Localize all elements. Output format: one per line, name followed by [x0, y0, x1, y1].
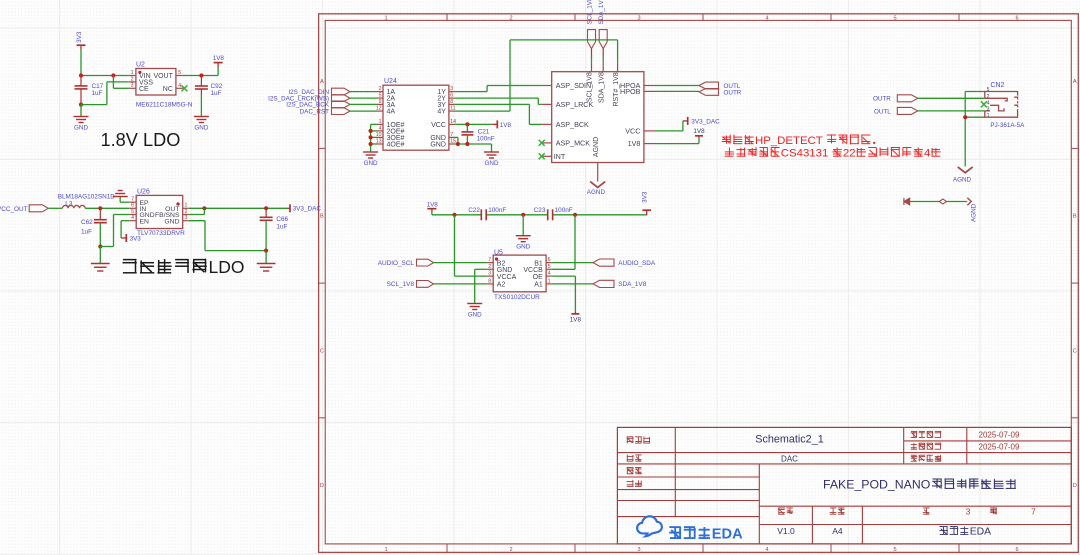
svg-text:U24: U24	[384, 78, 397, 85]
svg-text:ASP_BCK: ASP_BCK	[556, 120, 589, 129]
svg-text:TLV70733DRVR: TLV70733DRVR	[137, 230, 185, 237]
svg-text:4: 4	[987, 100, 990, 106]
title block labels (chinese)	[627, 431, 997, 515]
svg-text:5: 5	[893, 15, 896, 21]
svg-text:1: 1	[384, 15, 387, 21]
net-tie GND to AGND	[904, 198, 978, 222]
power flag 3V3_DAC at OUT	[287, 204, 321, 212]
svg-text:3: 3	[131, 83, 134, 89]
wire VCC_OUT to L3	[48, 207, 62, 209]
svg-text:1V8: 1V8	[693, 128, 705, 135]
svg-text:2: 2	[987, 94, 990, 100]
svg-text:A: A	[320, 79, 324, 85]
svg-text:5: 5	[893, 547, 896, 553]
wire CE to VIN net	[113, 76, 128, 89]
wire 1Y to ASP_SDIN	[454, 86, 541, 92]
capacitor C23 100nF	[534, 207, 573, 220]
svg-text:4: 4	[765, 15, 768, 21]
power flag 3V3 at EN pin	[121, 221, 141, 243]
ground under C21	[484, 152, 499, 167]
svg-text:VCC_OUT: VCC_OUT	[0, 206, 28, 213]
node junction VIN rail	[79, 73, 116, 77]
wire DAC_RST to U24	[350, 110, 377, 112]
capacitor C21	[461, 124, 494, 144]
svg-text:EDA: EDA	[712, 526, 743, 542]
svg-text:1: 1	[987, 113, 990, 119]
svg-text:SCL_1V8: SCL_1V8	[387, 281, 415, 288]
no-connect X on ASP_MCK	[539, 140, 545, 146]
svg-text:D: D	[1073, 483, 1077, 489]
no-connect X on CN2 pin4	[981, 101, 987, 107]
svg-text:SDA_1V8: SDA_1V8	[618, 281, 647, 288]
svg-text:LDO: LDO	[209, 257, 245, 277]
svg-text:GND: GND	[364, 160, 378, 167]
svg-text:OE: OE	[533, 274, 543, 281]
no-connect X on U2 NC pin	[181, 85, 187, 91]
svg-text:PJ-361A-5A: PJ-361A-5A	[990, 122, 1025, 129]
net flag SDA_1V8 (top)	[598, 0, 607, 61]
net flag VCC_OUT	[0, 205, 48, 213]
svg-text:C: C	[1073, 348, 1077, 354]
svg-text:EDA: EDA	[970, 527, 991, 538]
svg-text:3: 3	[488, 271, 491, 277]
svg-text:SDA_1V8: SDA_1V8	[599, 72, 606, 103]
node junction CN2 pin1	[963, 115, 967, 119]
wire 1V8/3V3 decoupling rail	[432, 214, 647, 216]
svg-text:1: 1	[548, 278, 551, 284]
svg-text:A2: A2	[497, 282, 506, 289]
title block values	[755, 431, 1036, 536]
ground under C66	[257, 251, 276, 271]
wire U26 right GND to C66 bottom	[189, 221, 266, 251]
svg-text:2025-07-09: 2025-07-09	[979, 443, 1020, 452]
inductor L3 BLM18AG102SN1D	[58, 194, 116, 209]
svg-text:CS43131: CS43131	[781, 147, 829, 159]
svg-text:HP_DETECT: HP_DETECT	[755, 135, 823, 147]
ground above EP pin	[113, 191, 130, 203]
node junctions rail	[452, 213, 577, 217]
power flag 1V8 (U5 rail)	[427, 202, 439, 215]
wire 4Y to RST#_1V8	[454, 40, 617, 111]
svg-text:1uF: 1uF	[92, 90, 103, 97]
svg-text:RST#_1V8: RST#_1V8	[613, 72, 620, 106]
svg-text:OUTR: OUTR	[724, 90, 742, 97]
no-connect X on INT	[539, 153, 545, 159]
svg-text:12: 12	[376, 106, 382, 112]
svg-text:SCL_1V8: SCL_1V8	[587, 72, 594, 102]
svg-text:HPOB: HPOB	[620, 87, 641, 96]
svg-text:AGND: AGND	[593, 137, 600, 157]
node junctions on OUT rail	[202, 206, 268, 210]
svg-text:3: 3	[987, 107, 990, 113]
svg-text:2: 2	[131, 76, 134, 82]
svg-text:VCC: VCC	[431, 122, 446, 129]
svg-text:C21: C21	[478, 128, 490, 135]
svg-text:100nF: 100nF	[555, 207, 573, 214]
wire U24 GND pins to ground	[454, 137, 491, 152]
wire AGND bus at jack	[965, 92, 985, 167]
svg-text:AUDIO_SCL: AUDIO_SCL	[378, 260, 415, 267]
svg-text:5: 5	[987, 87, 990, 93]
svg-text:6: 6	[548, 257, 551, 263]
node junction at C62	[98, 206, 102, 210]
wire OUTR to CN2 pin2	[918, 97, 985, 99]
svg-text:3: 3	[637, 15, 640, 21]
svg-text:1V8: 1V8	[500, 122, 512, 129]
svg-text:7: 7	[1031, 506, 1036, 516]
regulator U2 ME6211C18M5G-N	[129, 62, 193, 109]
svg-text:2: 2	[509, 15, 512, 21]
svg-text:1uF: 1uF	[211, 90, 222, 97]
svg-text:B: B	[320, 214, 324, 220]
svg-text:7: 7	[450, 132, 453, 138]
svg-text:C: C	[320, 348, 324, 354]
node junction C66 bottom	[264, 249, 268, 253]
svg-text:AUDIO_SDA: AUDIO_SDA	[618, 260, 656, 267]
net flag I2S_DAC_LRCK(WS)	[268, 95, 350, 103]
svg-text:C92: C92	[211, 83, 223, 90]
svg-text:4OE#: 4OE#	[387, 141, 405, 148]
svg-text:3V3: 3V3	[130, 235, 142, 242]
analog ground AGND under CS43131	[587, 182, 606, 196]
svg-text:AGND: AGND	[970, 203, 977, 222]
node junction C62 bottom	[98, 244, 102, 248]
wire 3V3 to VIN rail	[81, 50, 129, 76]
net flag I2S_DAC_BCK	[286, 101, 350, 109]
level shifter U5 TXS0102DCUR	[487, 250, 552, 301]
svg-text:C17: C17	[92, 83, 104, 90]
svg-text:7: 7	[488, 257, 491, 263]
capacitor C92	[195, 76, 223, 97]
svg-text:3V3_DAC: 3V3_DAC	[691, 118, 720, 125]
net flag AUDIO_SDA	[593, 259, 656, 267]
node junction VCC-C21	[465, 122, 469, 126]
svg-text:DAC: DAC	[781, 455, 798, 464]
power flag 1V8 at CS43131	[656, 128, 705, 143]
net flag OUTL (to jack)	[874, 107, 918, 115]
svg-text:5: 5	[548, 264, 551, 270]
wire VCCA to 1V8 rail	[455, 215, 487, 276]
node junctions GND chain	[456, 142, 470, 146]
svg-text:4: 4	[131, 215, 134, 221]
svg-text:7: 7	[131, 197, 134, 203]
wire A1 to SDA_1V8	[552, 283, 593, 285]
svg-text:AGND: AGND	[587, 189, 606, 196]
svg-text:4: 4	[178, 83, 181, 89]
svg-text:2: 2	[509, 547, 512, 553]
svg-text:U26: U26	[137, 188, 150, 195]
net flag OUTL	[699, 82, 741, 90]
net flag I2S_DAC_DIN	[288, 88, 350, 96]
svg-text:4: 4	[548, 271, 551, 277]
svg-text:DAC_RST: DAC_RST	[300, 108, 330, 115]
wire I2S_DAC_LRCK(WS) to U24	[350, 97, 377, 99]
wire L3 to IN	[85, 207, 129, 209]
net flag OUTR (to jack)	[873, 95, 918, 103]
svg-text:GND: GND	[516, 244, 530, 251]
capacitor C17	[75, 76, 104, 105]
svg-text:CN2: CN2	[990, 82, 1004, 89]
svg-text:100nF: 100nF	[488, 207, 506, 214]
svg-text:C62: C62	[81, 219, 93, 226]
svg-text:GND: GND	[485, 160, 499, 167]
node junctions OE chain	[369, 129, 373, 146]
capacitor C22 100nF	[468, 207, 506, 220]
svg-text:8: 8	[450, 99, 453, 105]
wire HPOA to OUTL	[656, 85, 699, 87]
wire OUT to 3V3_DAC	[189, 207, 287, 209]
vendor name JLC EDA (chinese)	[939, 526, 991, 537]
svg-text:1: 1	[185, 203, 188, 209]
ground on rail (C22/C23 middle)	[516, 215, 531, 251]
wire I2S_DAC_BCK to U24	[350, 103, 377, 105]
svg-text:1.8V LDO: 1.8V LDO	[101, 130, 181, 150]
wire SCL_1V8 to A2	[434, 283, 487, 285]
svg-text:6: 6	[131, 203, 134, 209]
wire VSS to GND net	[81, 82, 129, 105]
svg-text:NC: NC	[163, 86, 173, 93]
svg-text:A4: A4	[832, 526, 843, 536]
svg-text:4Y: 4Y	[437, 108, 446, 115]
svg-text:5: 5	[379, 93, 382, 99]
svg-text:GND: GND	[430, 141, 446, 148]
svg-text:GND: GND	[164, 218, 179, 225]
svg-text:OUTR: OUTR	[873, 96, 891, 103]
svg-text:3V3: 3V3	[642, 191, 649, 203]
svg-text:3: 3	[637, 547, 640, 553]
svg-text:2025-07-09: 2025-07-09	[979, 431, 1020, 440]
svg-text:SCL_1V8: SCL_1V8	[587, 0, 594, 25]
logo JLC EDA	[637, 516, 743, 542]
wire 3Y to ASP_BCK	[454, 104, 541, 124]
svg-text:1uF: 1uF	[81, 228, 92, 235]
wire B1 to AUDIO_SDA	[552, 262, 593, 264]
net flag OUTR (at DAC)	[699, 89, 742, 97]
svg-text:5: 5	[178, 70, 181, 76]
net flag SDA_1V8 (U5)	[593, 280, 647, 288]
svg-text:C66: C66	[276, 216, 288, 223]
wire HPOB to OUTR	[656, 90, 699, 92]
svg-text:ASP_MCK: ASP_MCK	[556, 139, 591, 148]
buffer U24	[376, 78, 456, 150]
svg-text:U2: U2	[136, 62, 145, 69]
wire FB/SNS to OUT	[189, 208, 205, 214]
svg-text:1V8: 1V8	[213, 55, 225, 62]
svg-text:INT: INT	[554, 152, 566, 161]
svg-text:1: 1	[131, 70, 134, 76]
title FAKE_POD_NANO player (chinese)	[823, 478, 1016, 492]
wire VCCB to 3V3 rail	[552, 215, 575, 269]
svg-text:6: 6	[1015, 15, 1018, 21]
sheet border frame	[319, 14, 1079, 553]
svg-text:VOUT: VOUT	[153, 73, 173, 80]
wire I2S_DAC_DIN to U24	[350, 91, 377, 93]
svg-text:AGND: AGND	[953, 176, 972, 183]
svg-text:B: B	[1073, 214, 1077, 220]
wire AUDIO_SCL to B2	[434, 262, 487, 264]
svg-text:2: 2	[488, 264, 491, 270]
wire VCC to 1V8	[454, 123, 492, 125]
ground GND under C92	[194, 95, 209, 131]
ground GND under C17	[74, 105, 89, 132]
net flag AUDIO_SCL	[378, 259, 434, 267]
svg-text:1V8: 1V8	[628, 139, 641, 148]
wire OUTL to CN2 pin3	[918, 110, 985, 112]
svg-text:VCC: VCC	[625, 127, 640, 136]
svg-text:A1: A1	[534, 282, 543, 289]
svg-text:BLM18AG102SN1D: BLM18AG102SN1D	[58, 194, 116, 201]
svg-text:3V3_DAC: 3V3_DAC	[293, 206, 322, 213]
svg-text:1V8: 1V8	[427, 202, 439, 209]
svg-text:8: 8	[488, 278, 491, 284]
wire 2Y to ASP_LRCK	[454, 98, 541, 104]
svg-text:SDA_1V8: SDA_1V8	[598, 0, 605, 25]
svg-text:V1.0: V1.0	[777, 526, 795, 536]
power flag 3V3_DAC at CS43131 VCC	[656, 117, 720, 131]
capacitor C66	[260, 208, 289, 250]
node junction C17 bottom	[79, 103, 83, 107]
wire VOUT to 1V8	[183, 75, 218, 77]
svg-text:C23: C23	[534, 207, 546, 214]
svg-text:4A: 4A	[387, 108, 396, 115]
wire U5 GND to ground	[467, 269, 487, 318]
svg-text:ME6211C18M5G-N: ME6211C18M5G-N	[136, 101, 193, 108]
svg-text:1uF: 1uF	[276, 223, 287, 230]
svg-text:100nF: 100nF	[477, 135, 495, 142]
svg-text:6: 6	[1015, 547, 1018, 553]
net flag SCL_1V8 (top)	[587, 0, 596, 61]
svg-text:3: 3	[185, 215, 188, 221]
svg-text:4: 4	[379, 126, 382, 132]
net flag SCL_1V8 (U5)	[387, 281, 434, 289]
svg-text:Schematic2_1: Schematic2_1	[755, 433, 823, 445]
svg-text:CE: CE	[139, 86, 149, 93]
capacitor C62	[81, 208, 107, 246]
svg-text:4: 4	[924, 147, 930, 159]
headphone jack CN2 PJ-361A-5A	[985, 82, 1025, 129]
DAC chip CS43131	[542, 61, 656, 182]
svg-text:VCCA: VCCA	[497, 274, 517, 281]
svg-text:5: 5	[131, 209, 134, 215]
regulator U26 TLV70733DRVR	[129, 188, 189, 237]
power flag 1V8 at VOUT	[213, 55, 225, 75]
svg-text:3: 3	[450, 86, 453, 92]
svg-text:C22: C22	[468, 207, 480, 214]
svg-text:1: 1	[379, 119, 382, 125]
svg-text:D: D	[320, 483, 324, 489]
svg-text:3: 3	[966, 506, 971, 516]
power flag 1V8 at OE	[552, 276, 582, 323]
node junction VOUT	[199, 73, 203, 77]
svg-text:2: 2	[185, 209, 188, 215]
title block table	[617, 427, 1071, 544]
ground under OE pins	[363, 152, 378, 167]
label low-ripple-noise LDO (chinese)	[123, 257, 245, 277]
analog ground AGND under CN2	[953, 167, 973, 184]
svg-text:GND: GND	[74, 124, 88, 131]
svg-text:22: 22	[843, 147, 856, 159]
svg-text:GND: GND	[194, 124, 208, 131]
svg-text:1V8: 1V8	[570, 316, 582, 323]
svg-text:3V3: 3V3	[76, 31, 83, 43]
label 1.8V LDO	[101, 130, 181, 150]
svg-text:4: 4	[765, 547, 768, 553]
svg-text:2: 2	[379, 86, 382, 92]
power flag 3V3 (top left)	[76, 31, 86, 49]
annotation: HP_DETECT not used (chinese)	[722, 135, 941, 160]
svg-text:1: 1	[384, 547, 387, 553]
svg-text:6: 6	[450, 93, 453, 99]
wire U26 GND pin to C62 bottom	[100, 215, 129, 247]
svg-text:FAKE_POD_NANO: FAKE_POD_NANO	[823, 478, 930, 492]
ground under C62	[91, 247, 110, 272]
svg-text:TXS0102DCUR: TXS0102DCUR	[494, 294, 540, 301]
net flag DAC_RST	[300, 108, 350, 116]
svg-text:EN: EN	[140, 218, 150, 225]
svg-text:A: A	[1073, 79, 1077, 85]
power flag 1V8 at U24 VCC	[492, 120, 511, 128]
power flag 3V3 (U5 rail right)	[642, 191, 651, 215]
wire OE enables to ground	[371, 124, 377, 152]
svg-text:OUTL: OUTL	[874, 108, 891, 115]
svg-text:GND: GND	[468, 311, 482, 318]
frame zone numbers	[320, 15, 1077, 553]
svg-text:9: 9	[379, 99, 382, 105]
